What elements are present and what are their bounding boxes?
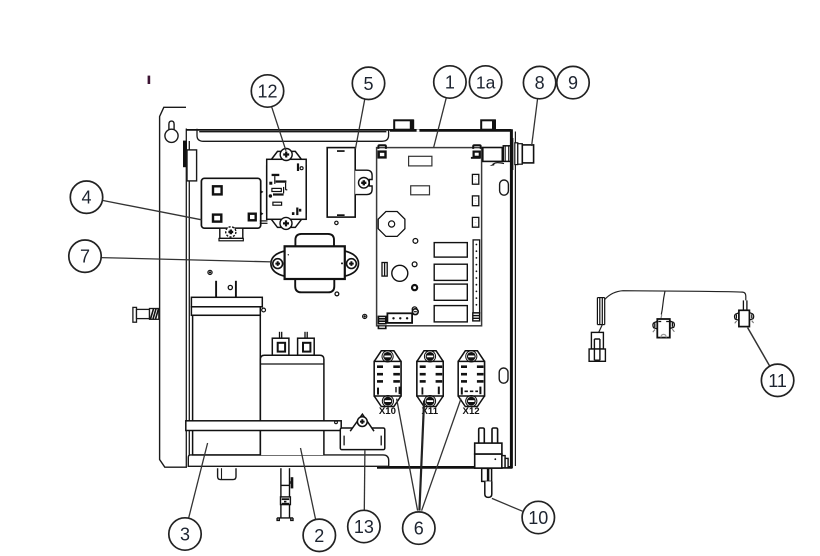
bottom foot bracket (218, 468, 236, 479)
callout circle 4 (70, 181, 102, 213)
coax connector body (483, 148, 503, 162)
callout circle 3 (169, 518, 201, 550)
capacitor C1 top plate (191, 297, 262, 307)
capacitor C2 terminal block right (298, 338, 315, 355)
X12 top screw (466, 351, 477, 362)
callout circle 10 (522, 501, 554, 533)
latch block (187, 150, 197, 181)
EMI filter body (267, 159, 307, 219)
panel screw left of PCB bottom (363, 314, 367, 318)
harness lower plug (589, 332, 605, 361)
transformer right ear screw (347, 259, 357, 269)
leader lines to 6 (397, 399, 418, 511)
item 4 lower bracket (220, 228, 243, 238)
item 4 base plate (219, 238, 243, 240)
PCB 3-pin connector (387, 313, 412, 323)
item 4 bracket screw (226, 227, 236, 237)
leader line to 13 (363, 450, 366, 510)
svg-text:6: 6 (414, 519, 424, 539)
PCB relay 4 (434, 306, 467, 322)
PCB corner screw (412, 309, 418, 315)
PCB header pins (476, 244, 478, 306)
capacitor C2 body (260, 355, 324, 455)
svg-text:8: 8 (535, 73, 545, 93)
callout circle 2 (303, 519, 335, 551)
wire item4 to filter (260, 221, 268, 223)
item 5 side tab (355, 170, 372, 194)
left side tab handle (133, 307, 159, 322)
transformer T1 top tab (295, 234, 334, 246)
capacitor C1 body (193, 315, 261, 455)
harness ribbon connector (597, 298, 604, 325)
item 4 right terminal arrows (261, 190, 264, 194)
PCB LED 3 (dark) (412, 285, 417, 290)
X11 bottom screw (424, 396, 435, 407)
X12 dashed mark (465, 390, 479, 392)
PCB top-left clip (378, 145, 386, 157)
leader line to 11 (748, 328, 770, 367)
callout circle 9 (557, 66, 589, 98)
svg-text:7: 7 (80, 247, 90, 267)
enclosure top inner lip (197, 129, 389, 142)
svg-text:2: 2 (314, 526, 324, 546)
item 5 tab screw (359, 178, 370, 189)
panel edge over coax (511, 138, 514, 170)
PCB top-right clip (473, 145, 481, 149)
PCB header strip (473, 240, 480, 313)
leader line to 8 (532, 99, 538, 146)
power inlet upper body (475, 443, 502, 454)
PCB relay 2 (434, 264, 467, 280)
hinge latch dark bar (183, 141, 187, 168)
stray ink mark (148, 76, 151, 84)
X10 top screw (382, 351, 393, 362)
X10 bottom screw (382, 396, 393, 407)
enclosure left edge (186, 129, 189, 468)
PCB LED 4 (412, 307, 417, 312)
strain relief hook (291, 477, 294, 488)
PCB LED 1 (413, 239, 418, 244)
svg-text:9: 9 (568, 73, 578, 93)
PCB header foot (473, 313, 480, 321)
PCB bottom-left stacked component (378, 316, 385, 328)
X12 bottom screw (466, 396, 477, 407)
callout circle 12 (251, 75, 283, 107)
capacitor C1 ridge plate (191, 307, 260, 316)
item 5 top mark (337, 150, 345, 152)
EMI filter top screw (280, 149, 292, 161)
leader line to 7 (101, 258, 272, 262)
capacitor C1 side dot (262, 308, 266, 312)
item 5 bottom mark (337, 214, 345, 216)
harness main wire (605, 291, 746, 301)
top standoff tab 2 (481, 120, 496, 131)
callout circle 6 (403, 512, 435, 544)
svg-text:4: 4 (81, 188, 91, 208)
callout circle 11 (761, 364, 793, 396)
connector X10 outline (374, 351, 401, 407)
power inlet lower body (475, 454, 502, 468)
relay item 5 body (327, 148, 355, 218)
bracket 13 body (340, 428, 385, 450)
callout circle 7 (69, 240, 101, 272)
callout circle 5 (352, 67, 384, 99)
strain relief feet (277, 518, 293, 521)
coax nut (503, 146, 510, 162)
svg-text:X10: X10 (379, 406, 396, 417)
transformer T1 bottom tab (295, 279, 334, 292)
PCB item 1 outline (377, 148, 482, 326)
X11 top screw (424, 351, 435, 362)
item 4 contact square 1 (213, 186, 222, 194)
relay block item 4 body (201, 178, 260, 228)
enclosure right outer fold line (514, 132, 516, 467)
svg-text:1: 1 (445, 73, 455, 93)
svg-text:1a: 1a (476, 73, 496, 93)
coax rings (518, 144, 523, 165)
transformer left ear screw (273, 259, 283, 269)
PCB edge connector 1 (472, 174, 478, 184)
connector X11 outline (417, 351, 443, 407)
PCB small capacitor (382, 263, 387, 277)
EMI filter bottom screw (280, 217, 292, 229)
filter schematic marks (269, 163, 301, 215)
bracket 13 screw (357, 417, 367, 427)
coax connector 8/9 clip (474, 152, 480, 157)
enclosure bottom edge (thick) (377, 466, 513, 469)
harness right connector pins (743, 300, 747, 310)
leader line to 2 (301, 448, 316, 520)
PCB big round capacitor (392, 265, 408, 281)
svg-text:11: 11 (768, 371, 787, 391)
item 4 contact square 2 (213, 215, 221, 222)
PCB relay 3 (434, 284, 467, 300)
item 4 contact square 3 (249, 214, 256, 221)
X12 contact bars (461, 365, 484, 394)
X10 body (374, 361, 401, 396)
PCB edge connector 3 (472, 217, 478, 227)
enclosure top edge (thick) (186, 129, 392, 131)
keyhole slot (165, 121, 178, 142)
PCB edge connector 2 (472, 196, 478, 206)
leader line to 4 (102, 200, 201, 219)
capacitor C2 top seam (260, 363, 324, 365)
leader line to 10 (492, 498, 523, 511)
power inlet prong right (492, 428, 498, 443)
leader line to 1 (434, 98, 447, 148)
oval slot upper right (500, 180, 509, 195)
X11 body (417, 361, 443, 396)
PCB relay 1 (434, 243, 467, 258)
power inlet side tabs (502, 456, 508, 468)
bracket 13 inner ticks (344, 436, 381, 446)
harness wire to lower plug (599, 325, 603, 333)
svg-text:3: 3 (180, 525, 190, 545)
strain relief hanger left bar (281, 468, 290, 518)
small hole below transformer (335, 292, 339, 296)
X12 body (458, 361, 484, 396)
capacitor clamp bar (186, 421, 341, 431)
svg-text:10: 10 (528, 508, 548, 528)
PCB label rectangle 2 (411, 186, 430, 195)
small hole below item 5 (335, 221, 338, 224)
harness right connector body (735, 310, 754, 326)
left tab hatched section (151, 309, 159, 319)
panel screw near capacitor (208, 270, 212, 274)
oval slot lower right (499, 368, 508, 383)
PCB buzzer hole (389, 221, 395, 227)
callout circle 8 (523, 66, 555, 98)
bracket 13 grommet triangle (350, 414, 374, 431)
svg-text:5: 5 (363, 74, 373, 94)
power inlet item 10 prong left (479, 428, 485, 443)
coax locating hook (493, 163, 504, 165)
power inlet lower pins (482, 468, 492, 481)
svg-text:X12: X12 (463, 406, 480, 417)
svg-text:13: 13 (354, 517, 374, 537)
callout circle 1a (469, 66, 501, 98)
transformer T1 left mounting ear (271, 251, 285, 276)
capacitor C2 terminal block left (272, 338, 289, 355)
transformer T1 right mounting ear (345, 251, 359, 276)
capacitor C1 top hole (228, 285, 232, 289)
coax end cap (522, 145, 533, 163)
capacitor C1 (item 3) terminal pins (216, 281, 236, 297)
connector X12 outline (458, 351, 484, 407)
PCB buzzer octagon (378, 212, 405, 237)
coax washer (515, 143, 518, 165)
svg-text:12: 12 (257, 82, 277, 102)
harness middle connector (653, 315, 675, 338)
EMI filter item 12 octagon (267, 151, 307, 227)
transformer body dots (288, 254, 289, 255)
X10 contact bars (377, 365, 401, 394)
enclosure right edge (thick) (510, 129, 513, 468)
X11 contact bars (420, 365, 443, 394)
clamp bar end dot (335, 421, 338, 424)
leader line to 3 (189, 443, 208, 518)
PCB LED 2 (412, 262, 417, 267)
top standoff tab 1 (394, 120, 419, 132)
power inlet body dot (494, 458, 496, 460)
callout circle 13 (348, 510, 380, 542)
strain relief clamp block (281, 497, 291, 505)
leader line to 12 (272, 107, 286, 151)
transformer T1 body (285, 246, 345, 279)
harness middle connector wire (661, 291, 665, 315)
power inlet stem (485, 481, 492, 497)
leader line to 5 (355, 99, 364, 149)
enclosure bottom flange strip (188, 455, 388, 466)
capacitor C2 (item 2) terminal pins (280, 332, 308, 338)
PCB label rectangle 1 (409, 156, 432, 166)
callout circle 1 (434, 66, 466, 98)
enclosure mounting flange (160, 107, 187, 467)
